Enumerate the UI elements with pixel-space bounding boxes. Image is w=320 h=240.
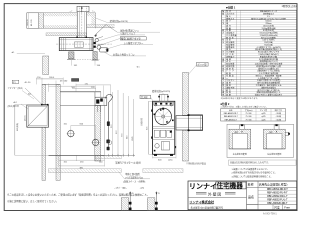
spec table 1 text [222, 9, 286, 96]
title block frame [188, 181, 297, 210]
subtitle drawing type [196, 192, 236, 197]
heater lower components [154, 142, 173, 156]
dim texts left [25, 19, 33, 26]
flue top marks [70, 10, 96, 13]
numbered notes [232, 167, 277, 179]
water plug circle [91, 138, 99, 146]
company name [189, 199, 223, 209]
label flue center [152, 89, 170, 95]
svg-text:■仕様 1: ■仕様 1 [226, 5, 236, 9]
label flue pipe [96, 18, 151, 23]
exhaust duct through wall [176, 114, 203, 131]
soffit body left [43, 13, 77, 28]
svg-text:φ125: φ125 [261, 118, 265, 121]
product cell [248, 188, 288, 205]
heater unit front [153, 94, 175, 154]
dim ticks right of room [105, 154, 135, 157]
svg-text:1壁型(先止め): 1壁型(先止め) [282, 4, 297, 8]
scale cell [274, 206, 290, 210]
svg-text:品名: 品名 [248, 194, 254, 199]
figure box frame [227, 124, 294, 157]
right floor hatch [143, 169, 183, 173]
svg-text:RBF-A80S2-RR-T: RBF-A80S2-RR-T [224, 112, 239, 115]
dim between plugs [64, 124, 96, 138]
svg-text:尺度: 尺度 [274, 206, 280, 210]
flue pipe vertical [77, 12, 86, 38]
remote label left [12, 51, 46, 54]
label relief valve [98, 31, 145, 41]
heater mid components [153, 127, 175, 140]
svg-text:φ125: φ125 [261, 112, 265, 115]
figure box note [229, 160, 297, 165]
svg-text:+(25): +(25) [140, 188, 145, 190]
void pipe label [188, 62, 208, 74]
gas cock label [140, 95, 154, 103]
soffit end wall hatch [39, 13, 44, 28]
svg-text:⌐⊤: ⌐⊤ [70, 10, 73, 13]
unit side tabs [151, 110, 176, 149]
bathroom floor hatch [49, 169, 122, 173]
label remote [104, 52, 146, 56]
svg-text:名古屋市中川区福住町2番26号: 名古屋市中川区福住町2番26号 [191, 205, 224, 209]
right vertical dims [111, 90, 134, 155]
center bottom dims [153, 130, 177, 161]
dim 161 [71, 60, 101, 67]
company logo text [189, 181, 246, 190]
left side labels [8, 80, 35, 109]
svg-text:RBF-A80S2D-T: RBF-A80S2D-T [225, 118, 238, 121]
bathroom left wall hatch [42, 56, 60, 180]
dims above faucet [60, 78, 111, 97]
heater opening recess box [25, 88, 49, 127]
heater body section [56, 36, 112, 50]
svg-text:25: 25 [158, 193, 160, 195]
bathroom right wall hatch [95, 92, 105, 161]
spec table 1 grid [222, 10, 297, 96]
bathroom outline [49, 92, 105, 156]
shower faucet unit [95, 97, 107, 112]
spec table 2 grid [221, 109, 286, 121]
svg-text:リンナイ: リンナイ [189, 182, 217, 190]
svg-text:RBF-A80S2-FU-T: RBF-A80S2-FU-T [224, 115, 239, 118]
center left dim [147, 101, 153, 154]
shaft wall hatch [183, 73, 189, 162]
left vertical dim lower view [15, 105, 49, 156]
shaft section figure 1 [229, 124, 251, 155]
gas plug circle [67, 129, 75, 137]
small hatch under room corner [95, 156, 122, 159]
drain work note [119, 172, 150, 184]
dim line above room [49, 84, 96, 92]
bottom dims lower view [59, 155, 105, 169]
svg-text:40~50: 40~50 [25, 82, 32, 84]
tub wall column right [92, 52, 99, 61]
svg-text:A-XXX-T99-1: A-XXX-T99-1 [263, 213, 277, 216]
svg-text:■仕様 2: ■仕様 2 [220, 102, 229, 106]
soffit end box [27, 13, 39, 28]
svg-text:40~130: 40~130 [31, 20, 33, 26]
svg-text:Free: Free [284, 206, 290, 210]
wall detail column 1 [121, 192, 133, 211]
wall detail column 2 [147, 192, 159, 211]
lower thin band [46, 33, 87, 36]
svg-text:(P): (P) [13, 82, 16, 84]
label adaptor boxed [101, 36, 147, 45]
spec table 2 text [224, 108, 282, 121]
shower hose [106, 94, 113, 150]
svg-text:(403.5): (403.5) [25, 115, 27, 121]
svg-text:75~180: 75~180 [246, 113, 252, 115]
shaft section figure 2 [264, 124, 290, 155]
svg-text:浴用先止設置図(L壁型): 浴用先止設置図(L壁型) [259, 182, 288, 186]
label wall fan [94, 25, 160, 37]
sheet border frame [4, 4, 297, 211]
tub wall column left [67, 52, 100, 60]
soffit body right [87, 13, 115, 28]
tub adaptor fittings [94, 37, 109, 53]
svg-text:リンナイ株式会社: リンナイ株式会社 [189, 199, 215, 204]
heater fan circle [154, 103, 174, 125]
svg-text:外 壁 図: 外 壁 図 [208, 192, 221, 197]
detail dim marks [114, 186, 145, 190]
name cell [248, 182, 288, 187]
svg-text:φ125: φ125 [261, 115, 265, 118]
label bath adaptor [105, 41, 153, 50]
svg-text:75~180: 75~180 [246, 119, 252, 121]
svg-text:名称: 名称 [248, 182, 254, 187]
svg-text:45~130: 45~130 [60, 81, 68, 83]
spec table 1 title [226, 4, 297, 9]
svg-text:75~180: 75~180 [246, 116, 252, 118]
dims above lower view [36, 77, 63, 84]
flue top cap box [77, 6, 89, 12]
svg-text:(120): (120) [168, 159, 173, 161]
svg-text:RBF-A80S2D-RR-T: RBF-A80S2D-RR-T [267, 202, 288, 205]
